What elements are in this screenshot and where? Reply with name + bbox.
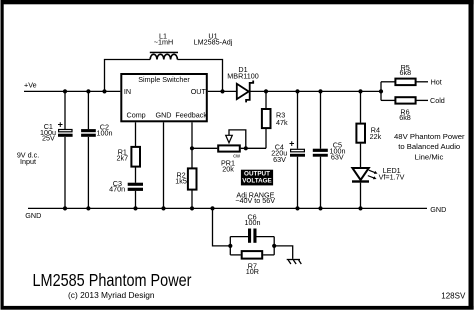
svg-text:~1mH: ~1mH	[154, 38, 173, 47]
svg-text:Input: Input	[20, 157, 36, 166]
svg-text:6k8: 6k8	[399, 113, 411, 122]
svg-text:100n: 100n	[97, 129, 113, 138]
svg-text:to Balanced Audio: to Balanced Audio	[398, 142, 460, 151]
svg-text:+Ve: +Ve	[24, 80, 37, 89]
svg-text:1k5: 1k5	[175, 177, 187, 186]
svg-text:~40V to 56V: ~40V to 56V	[235, 196, 275, 205]
svg-text:VOLTAGE: VOLTAGE	[242, 178, 272, 185]
svg-text:Feedback: Feedback	[175, 110, 207, 119]
svg-text:Hot: Hot	[431, 77, 442, 86]
svg-text:GND: GND	[430, 205, 446, 214]
svg-text:6k8: 6k8	[400, 68, 412, 77]
svg-text:(c) 2013 Myriad Design: (c) 2013 Myriad Design	[68, 290, 155, 300]
svg-text:10R: 10R	[246, 267, 259, 276]
svg-text:48V Phantom Power: 48V Phantom Power	[394, 132, 465, 141]
svg-text:63V: 63V	[331, 153, 344, 162]
svg-text:LM2585 Phantom Power: LM2585 Phantom Power	[33, 270, 192, 290]
svg-text:128SV: 128SV	[441, 292, 466, 301]
svg-text:2k7: 2k7	[117, 154, 129, 163]
svg-text:IN: IN	[124, 87, 131, 96]
svg-text:Cold: Cold	[430, 96, 445, 105]
svg-text:47k: 47k	[276, 118, 288, 127]
svg-text:100n: 100n	[245, 218, 261, 227]
svg-text:Line/Mic: Line/Mic	[415, 152, 444, 161]
svg-text:470n: 470n	[109, 185, 125, 194]
svg-text:MBR1100: MBR1100	[227, 72, 258, 81]
svg-text:LM2585-Adj: LM2585-Adj	[194, 38, 233, 47]
svg-text:GND: GND	[25, 211, 41, 220]
svg-text:Simple Switcher: Simple Switcher	[138, 75, 190, 84]
svg-text:GND: GND	[156, 110, 172, 119]
svg-text:+: +	[58, 120, 63, 130]
svg-text:63V: 63V	[273, 155, 286, 164]
svg-text:cw: cw	[233, 154, 240, 160]
svg-text:22k: 22k	[370, 132, 382, 141]
svg-text:+: +	[289, 138, 294, 148]
svg-text:OUT: OUT	[191, 87, 207, 96]
svg-text:Vf=1.7V: Vf=1.7V	[379, 173, 405, 182]
svg-text:Comp: Comp	[127, 110, 146, 119]
svg-text:20k: 20k	[222, 165, 234, 174]
svg-text:25V: 25V	[42, 134, 55, 143]
